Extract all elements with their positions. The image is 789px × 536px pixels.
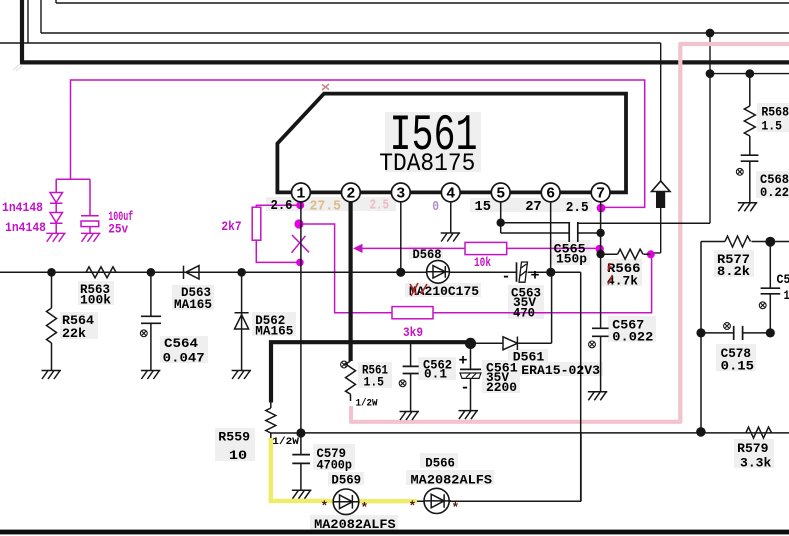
svg-text:1: 1	[296, 186, 305, 203]
svg-text:2: 2	[346, 186, 355, 203]
svg-text:2.6: 2.6	[271, 198, 293, 214]
svg-text:*: *	[452, 501, 460, 516]
svg-text:22k: 22k	[62, 326, 86, 341]
svg-text:MA2082ALFS: MA2082ALFS	[314, 517, 396, 532]
svg-text:MA210C175: MA210C175	[409, 284, 479, 299]
svg-text:*: *	[321, 499, 329, 514]
svg-text:25v: 25v	[108, 222, 128, 237]
svg-text:*: *	[409, 499, 417, 514]
svg-text:0.022: 0.022	[612, 330, 653, 345]
svg-text:10k: 10k	[474, 255, 491, 270]
svg-text:27.5: 27.5	[310, 198, 342, 214]
svg-text:2.5: 2.5	[566, 200, 589, 216]
svg-text:27: 27	[525, 199, 542, 215]
svg-text:1n4148: 1n4148	[2, 200, 43, 215]
svg-text:1.5: 1.5	[761, 119, 782, 134]
svg-text:1/2W: 1/2W	[272, 436, 299, 448]
svg-text:R568: R568	[761, 104, 789, 119]
svg-text:R559: R559	[218, 429, 250, 444]
svg-text:C5: C5	[777, 272, 789, 287]
svg-text:470: 470	[513, 306, 535, 321]
svg-text:0.047: 0.047	[163, 350, 205, 365]
svg-text:2k7: 2k7	[221, 219, 241, 234]
svg-text:D568: D568	[413, 247, 442, 262]
svg-text:MA165: MA165	[255, 324, 293, 339]
svg-text:5: 5	[496, 186, 505, 203]
svg-text:TDA8175: TDA8175	[379, 149, 475, 178]
svg-text:4700p: 4700p	[317, 457, 353, 472]
svg-text:4: 4	[446, 186, 455, 203]
svg-text:150p: 150p	[556, 252, 587, 267]
svg-text:C564: C564	[164, 336, 198, 351]
svg-text:2200: 2200	[486, 380, 517, 395]
svg-text:D569: D569	[331, 473, 361, 488]
svg-text:D566: D566	[425, 455, 455, 470]
svg-text:3: 3	[396, 186, 405, 203]
svg-text:ERA15-02V3: ERA15-02V3	[521, 363, 600, 378]
svg-text:1: 1	[784, 288, 789, 303]
svg-text:6: 6	[546, 186, 555, 203]
svg-text:MA165: MA165	[174, 297, 212, 312]
svg-text:0.1: 0.1	[424, 367, 447, 382]
svg-text:0: 0	[432, 199, 439, 215]
svg-text:3k9: 3k9	[403, 325, 423, 340]
svg-text:*: *	[361, 501, 369, 516]
svg-text:2.5: 2.5	[370, 198, 390, 214]
svg-text:100k: 100k	[80, 292, 111, 307]
svg-text:10: 10	[229, 448, 248, 463]
svg-text:7: 7	[596, 186, 605, 203]
svg-text:15: 15	[475, 199, 492, 215]
svg-text:+: +	[531, 268, 540, 285]
svg-text:3.3k: 3.3k	[740, 456, 771, 471]
svg-text:-: -	[502, 269, 511, 286]
svg-text:R579: R579	[737, 441, 769, 456]
svg-text:+: +	[459, 352, 468, 369]
svg-text:-: -	[461, 379, 470, 396]
svg-text:MA2082ALFS: MA2082ALFS	[411, 473, 493, 488]
svg-text:0.15: 0.15	[721, 359, 755, 374]
svg-text:1n4148: 1n4148	[5, 220, 46, 235]
svg-text:8.2k: 8.2k	[717, 264, 750, 279]
svg-text:0.22: 0.22	[760, 185, 789, 200]
svg-text:1.5: 1.5	[364, 375, 385, 390]
svg-text:1/2W: 1/2W	[356, 397, 378, 409]
